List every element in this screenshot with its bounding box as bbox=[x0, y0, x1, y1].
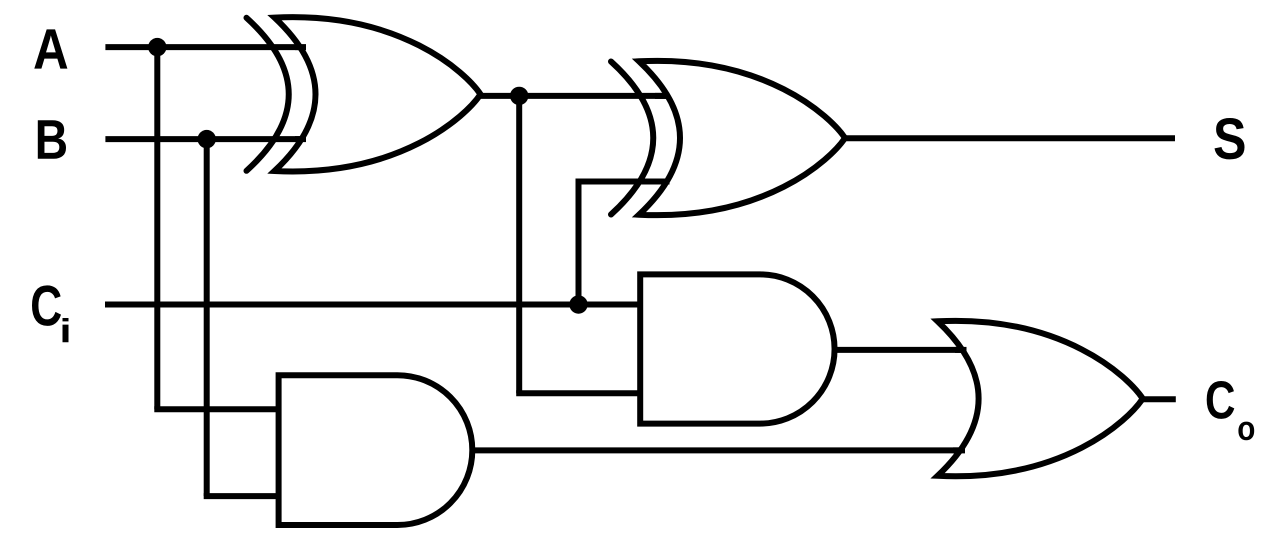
xor gate U2 front arc bbox=[611, 62, 653, 215]
xor gate U2 body bbox=[639, 61, 845, 215]
wire stub Ci branch into XOR2 bbox=[655, 179, 670, 185]
xor gate U1 front arc bbox=[247, 18, 289, 171]
label C of Ci bbox=[32, 285, 61, 325]
wire XOR1 output branch vertical bbox=[516, 96, 522, 393]
wire Ci branch vertical bbox=[576, 182, 582, 305]
junction dot on B bbox=[198, 130, 216, 148]
or gate U5 bbox=[938, 321, 1143, 476]
wire B branch vertical bbox=[204, 139, 210, 496]
wire A branch horizontal to AND2 bbox=[154, 406, 282, 412]
wire Co output bbox=[1142, 396, 1176, 402]
wire S output bbox=[845, 135, 1175, 141]
wire A branch vertical bbox=[154, 47, 160, 409]
wire to AND1 lower input bbox=[516, 390, 643, 396]
and gate U4 bbox=[279, 375, 473, 525]
wire AND2 output to OR bbox=[471, 447, 990, 453]
label S bbox=[1214, 118, 1244, 159]
and gate U3 bbox=[640, 274, 834, 423]
label B bbox=[38, 120, 66, 158]
wire stub A into XOR1 bbox=[295, 44, 306, 50]
junction dot on A bbox=[148, 38, 166, 56]
wire input B bbox=[105, 136, 330, 142]
wire input Ci bbox=[105, 302, 643, 308]
label A bbox=[34, 29, 67, 68]
wire stub B into XOR1 bbox=[295, 136, 306, 142]
wire stub AND1 out into OR bbox=[955, 347, 967, 353]
wire input A bbox=[105, 44, 330, 50]
wire to XOR2 lower input bbox=[576, 179, 701, 185]
xor gate U1 body bbox=[275, 17, 481, 171]
junction dot on XOR1 output bbox=[510, 87, 528, 105]
wire AND1 output to OR bbox=[834, 347, 990, 353]
label C of Co bbox=[1207, 381, 1235, 419]
wire XOR1 output to XOR2 bbox=[478, 93, 700, 99]
junction dot on Ci bbox=[569, 295, 587, 313]
label subscript i bbox=[63, 318, 69, 342]
wire B branch horizontal to AND2 bbox=[204, 493, 282, 499]
wire stub XOR1 out into XOR2 bbox=[655, 93, 670, 99]
wire stub AND2 out into OR bbox=[953, 447, 965, 453]
label subscript o bbox=[1238, 422, 1254, 441]
